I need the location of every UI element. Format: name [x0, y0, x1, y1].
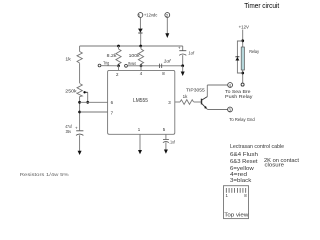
svg-text:To Sea Bre: To Sea Bre [225, 89, 251, 94]
node relay top [241, 39, 244, 42]
svg-text:1k: 1k [65, 56, 71, 61]
terminal Reset [125, 64, 128, 67]
ground arrow pin 1 [138, 150, 142, 154]
connector pins ticks [226, 188, 245, 193]
capacitor C3 1uf electrolytic [179, 51, 186, 56]
resistor R3 8.2k [118, 46, 120, 49]
terminal 3 [228, 107, 233, 112]
svg-text:LM555: LM555 [133, 98, 148, 104]
wire diode to rail [140, 33, 142, 46]
wire emitter to terminal 3 [206, 108, 207, 109]
node bypass junction [181, 64, 184, 67]
terminal 2 [165, 13, 170, 34]
wire reset node to bypass node [141, 65, 183, 67]
svg-text:35v: 35v [66, 129, 72, 134]
svg-text:+12vdc: +12vdc [144, 13, 158, 18]
svg-text:1k: 1k [183, 94, 189, 99]
diode D2 flyback [235, 57, 239, 60]
node pin7 tap [78, 111, 81, 114]
connector top view box [224, 186, 249, 219]
svg-text:+: + [75, 125, 78, 130]
svg-text:1uf: 1uf [188, 51, 194, 56]
wire collector up [206, 85, 208, 97]
wire pin 3 [175, 101, 180, 103]
wire reset junction to pin 4 [140, 66, 142, 71]
wire trig junction to pin 2 [118, 66, 120, 71]
svg-text:TIP3055: TIP3055 [186, 88, 205, 93]
ground arrow below C1 [78, 151, 82, 155]
svg-text:To Relay Gnd: To Relay Gnd [229, 117, 255, 122]
wire R5 to base [194, 101, 202, 103]
diode D1 [138, 29, 142, 33]
terminal 1 (+12vdc) [138, 13, 143, 29]
transistor Q1 TIP3055 [202, 97, 208, 109]
svg-text:1uf: 1uf [164, 59, 172, 64]
svg-text:3=black: 3=black [230, 178, 252, 184]
svg-text:8.2k: 8.2k [107, 53, 118, 58]
wire C4 to ground [165, 142, 167, 149]
svg-text:250k: 250k [65, 89, 77, 94]
resistor R5 1k [180, 100, 194, 105]
capacitor C4 .1uf [163, 139, 169, 142]
node rail/8.2k junction [117, 45, 120, 48]
wire diode branch [237, 41, 242, 73]
relay bottom open terminal [241, 83, 244, 86]
wire 1k to pot [79, 63, 81, 83]
node rail/diode junction [139, 45, 142, 48]
svg-text:6&3 Reset: 6&3 Reset [230, 159, 258, 165]
ground arrow below bypass [182, 66, 184, 72]
svg-text:+: + [178, 45, 181, 50]
node relay bottom [241, 72, 244, 75]
wire relay main [242, 30, 244, 84]
svg-text:Push Relay: Push Relay [225, 94, 253, 99]
svg-text:Relay: Relay [249, 49, 259, 54]
svg-text:Lectrasan control cable: Lectrasan control cable [230, 144, 284, 150]
wire pin 1 to ground [139, 134, 141, 150]
svg-text:Top view: Top view [224, 212, 248, 218]
svg-text:Reset: Reset [128, 61, 136, 66]
svg-text:6&4 Flush: 6&4 Flush [230, 152, 258, 158]
capacitor C2 1uf (series, horizontal) [159, 64, 161, 68]
terminal 4 [228, 83, 233, 88]
svg-text:+12V: +12V [239, 24, 249, 29]
node wiper/pin6 wire [86, 101, 89, 104]
wire to pin 7 [80, 111, 108, 113]
svg-text:100k: 100k [129, 53, 141, 58]
svg-text:.1uf: .1uf [169, 140, 175, 145]
wire to pin 6 [80, 101, 108, 103]
node pin6 tap [78, 101, 81, 104]
wire pin 5 [165, 134, 167, 139]
resistor R4 100k [140, 46, 142, 49]
terminal Trig [98, 64, 101, 67]
wire cap to ground [79, 135, 81, 151]
wire rail right drop [182, 46, 184, 51]
wire collector to terminal 4 [207, 84, 227, 86]
ground arrow under terminal 2 [165, 33, 169, 38]
wire +V rail [80, 45, 183, 47]
node trig junction [117, 64, 120, 67]
ground arrow pin 5 [164, 150, 168, 154]
op-amp U1 LM555 box [108, 70, 175, 134]
svg-text:Timer circuit: Timer circuit [244, 1, 279, 10]
node reset junction [140, 64, 143, 67]
svg-text:Trig: Trig [103, 61, 109, 66]
capacitor C1 47uf 35v [76, 131, 83, 136]
notes text block [230, 144, 300, 184]
svg-text:6=yellow: 6=yellow [230, 166, 254, 172]
svg-text:closure: closure [265, 162, 285, 168]
pot wiper arrow [83, 91, 87, 102]
wire pot to cap [79, 97, 81, 131]
svg-text:Resistors 1/4w 5%: Resistors 1/4w 5% [20, 172, 70, 178]
potentiometer R2 250k [77, 84, 82, 97]
wire left drop [79, 46, 81, 52]
resistor R1 1k [77, 52, 82, 64]
relay K1 coil [241, 47, 244, 70]
